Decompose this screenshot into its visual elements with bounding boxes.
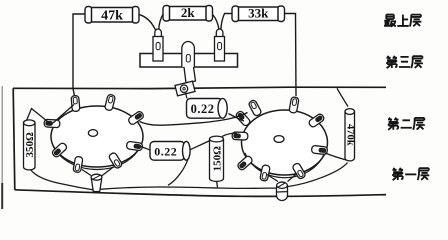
wire 150ohm bottom lead — [217, 180, 218, 188]
wire left socket lug1 base to lug8 junction — [53, 105, 74, 124]
capacitor C1 0.22 — [187, 99, 223, 119]
svg-text:0.22: 0.22 — [154, 144, 177, 158]
capacitor C2 0.22 — [150, 142, 185, 161]
socket XS2 center hole — [274, 136, 284, 143]
left standoff spacer — [91, 178, 101, 191]
wire 33k right lead down to right socket — [285, 14, 297, 97]
layer label: second layer (di er ceng) — [388, 118, 425, 130]
socket XS2 lug 4 — [311, 145, 327, 154]
socket XS1 lug 3 — [127, 110, 144, 125]
svg-text:470k: 470k — [344, 124, 355, 146]
socket XS2 lug 2 — [289, 97, 299, 114]
socket XS1 lug 5 — [108, 152, 123, 169]
chassis top edge — [13, 87, 386, 88]
wire foot to capacitor C1 — [186, 93, 188, 99]
svg-text:150Ω: 150Ω — [211, 146, 223, 172]
wire 47k left lead down to left socket lug — [73, 14, 90, 96]
wire 470k bottom to right standoff — [288, 163, 348, 187]
socket XS2 lug 6 — [260, 165, 271, 182]
socket XS2 lug 1 — [248, 99, 262, 116]
wire standoff to left socket lug5 — [102, 167, 115, 177]
resistor R5 150ohm — [210, 136, 224, 142]
svg-text:33k: 33k — [248, 6, 269, 21]
wire 150ohm top to right socket lug8 — [222, 133, 237, 136]
wire right socket lug5 to standoff — [288, 174, 298, 182]
long ground wire between standoffs — [95, 187, 281, 190]
socket XS1 lug 4 — [126, 141, 143, 151]
socket XS1 lug 7 — [51, 142, 68, 158]
chassis left edge — [13, 88, 15, 190]
wire left socket lug3 to right socket lug9 — [140, 113, 248, 126]
wire right socket lug4 to 470k bottom — [325, 153, 346, 160]
layer label: third layer (di san ceng) — [386, 56, 422, 68]
socket XS2 lug 3 — [308, 113, 325, 128]
wire 2k left lead — [159, 14, 164, 32]
resistor R2 2k — [163, 6, 170, 22]
terminal strip middle mounting lug — [182, 42, 195, 67]
svg-text:2k: 2k — [181, 5, 196, 20]
socket XS1 lug 2 — [104, 94, 115, 111]
svg-text:47k: 47k — [101, 9, 123, 24]
wire 2k right lead — [212, 14, 220, 32]
svg-text:350Ω: 350Ω — [24, 132, 36, 158]
wire 350ohm top lead — [27, 109, 51, 124]
wire 350ohm bottom lead to standoff — [31, 170, 94, 190]
scan edge artifact — [1, 86, 3, 209]
wire C2 right end to 150ohm top — [191, 140, 213, 150]
wire left socket lug6 to standoff — [82, 170, 91, 176]
resistor R1 47k — [85, 7, 92, 24]
wire 47k right lead to terminal strip left lug — [137, 14, 157, 32]
terminal strip right lug — [216, 29, 223, 38]
chassis bottom edge — [15, 190, 386, 197]
terminal strip board — [140, 54, 238, 68]
layer label: top layer (zui shang ceng) — [384, 15, 421, 27]
layer label: first layer (di yi ceng) — [392, 168, 429, 180]
wire left socket lug4 to capacitor C2 — [141, 147, 151, 151]
wire C2 to ground wire — [168, 158, 189, 186]
socket XS1 lug 1 — [71, 95, 80, 111]
tube socket XS1 (left) — [51, 106, 143, 167]
socket XS1 lug 8 — [44, 119, 60, 127]
right standoff spacer — [277, 182, 288, 201]
socket XS2 lug 5 — [292, 162, 306, 179]
wire capacitor C1 right end to right socket lug9 — [229, 114, 245, 122]
terminal strip left lug — [155, 29, 162, 38]
socket XS2 lug 8 — [232, 132, 248, 140]
socket XS1 lug 6 — [73, 156, 83, 173]
socket XS1 center hole — [88, 130, 97, 137]
resistor R4 350ohm — [24, 120, 36, 126]
resistor R6 470k — [345, 109, 355, 115]
middle lug mounting foot with hole — [175, 81, 195, 96]
wire 33k left lead — [221, 14, 233, 32]
socket XS2 lug 7 — [237, 155, 254, 171]
tube socket XS2 (right) — [242, 110, 328, 175]
wire chassis top edge to 470k top — [337, 88, 348, 106]
svg-text:0.22: 0.22 — [191, 102, 215, 116]
socket XS2 lug 9 — [235, 110, 251, 127]
wire right socket lug6 to standoff — [267, 175, 278, 182]
resistor R3 33k — [232, 6, 239, 22]
